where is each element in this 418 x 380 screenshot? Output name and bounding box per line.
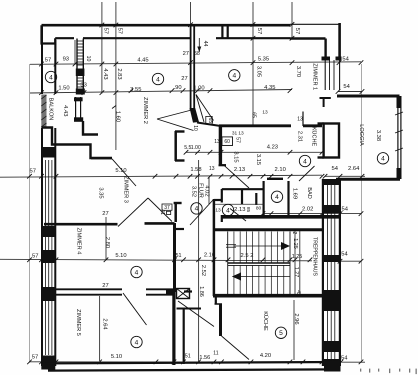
svg-text:4: 4: [195, 206, 199, 213]
svg-text:1.86: 1.86: [198, 286, 204, 297]
zimmer3 door swing: [118, 198, 172, 227]
kueche top wall: [219, 124, 322, 127]
svg-text:3.35: 3.35: [97, 187, 103, 198]
balkon bottom wall zigzag: [42, 128, 113, 159]
balkon parapet hatched: [41, 95, 46, 129]
svg-text:60: 60: [224, 139, 230, 145]
svg-text:1.27: 1.27: [293, 267, 299, 278]
svg-text:2.83: 2.83: [116, 68, 122, 79]
west wall pier 1: [41, 147, 55, 158]
east wall pier 5: [322, 341, 341, 352]
zimmer4-5 wall south face: [55, 294, 173, 296]
dim tick 1.60: [112, 106, 116, 109]
bad bottom wall: [222, 215, 342, 219]
svg-text:57: 57: [294, 28, 300, 34]
east wall pier 3: [322, 255, 341, 262]
svg-text:57: 57: [234, 137, 240, 143]
svg-text:2.02: 2.02: [302, 207, 313, 213]
flur west wall mid: [174, 203, 177, 222]
ext line x115: [115, 2, 117, 150]
svg-text:4.45: 4.45: [137, 58, 148, 64]
svg-text:2.52: 2.52: [200, 265, 206, 276]
svg-text:13: 13: [214, 139, 220, 145]
sink square: [167, 211, 171, 214]
ext line x292: [291, 2, 293, 39]
entree duct xbox: [177, 289, 190, 299]
stair bottom wall: [213, 294, 322, 298]
dim line y261 main: [0, 259, 312, 261]
svg-text:80: 80: [256, 206, 262, 212]
flur door jamb b: [184, 290, 192, 292]
loggia top wall: [337, 95, 400, 98]
zimmer4-5 wall north face: [55, 288, 173, 290]
duct flanges: [318, 124, 324, 158]
svg-text:1.25: 1.25: [292, 254, 303, 260]
west wall pier 5: [41, 356, 55, 370]
flur door swing: [190, 200, 213, 225]
bottom wall north face: [42, 362, 341, 363]
svg-text:1.50: 1.50: [58, 86, 69, 92]
loggia east window: [395, 96, 403, 179]
west wall outer face lower: [41, 128, 43, 366]
zimmer2 corner L wall: [83, 121, 98, 135]
circle flur: [191, 203, 202, 214]
ext line stair x299: [299, 231, 301, 295]
north wall vent bars: [221, 26, 229, 38]
svg-text:BALKON: BALKON: [47, 98, 53, 121]
east wall windows: [328, 185, 335, 359]
svg-text:65: 65: [251, 112, 257, 118]
svg-text:3.15: 3.15: [255, 154, 261, 165]
svg-text:2.13: 2.13: [234, 207, 245, 213]
svg-text:57: 57: [116, 28, 122, 34]
svg-text:4.20: 4.20: [260, 353, 271, 359]
svg-text:5: 5: [279, 330, 283, 337]
kueche door swing: [219, 165, 249, 188]
kueche west wall foot: [219, 164, 227, 166]
svg-text:LOGGIA: LOGGIA: [358, 124, 364, 146]
east wall inner face: [322, 179, 324, 366]
svg-text:4: 4: [135, 339, 139, 346]
wc dim line: [214, 203, 264, 205]
svg-text:42: 42: [295, 290, 301, 296]
east wall outer face: [339, 179, 341, 366]
svg-text:13: 13: [297, 117, 303, 123]
closet partition wall hatched: [76, 39, 85, 95]
arrow mark 44: [197, 38, 201, 52]
svg-text:54: 54: [341, 207, 348, 213]
svg-text:FLUR: FLUR: [197, 183, 203, 198]
shaft box 60 outline: [222, 137, 233, 146]
kueche east wall top: [320, 98, 331, 107]
wc east wall: [241, 189, 243, 204]
svg-text:51: 51: [176, 253, 182, 259]
svg-text:TREPPENHAUS: TREPPENHAUS: [312, 237, 318, 276]
dim line top y64: [30, 62, 361, 65]
ext line x253: [252, 2, 254, 126]
svg-text:4: 4: [381, 156, 385, 163]
svg-text:ZIMMER 2: ZIMMER 2: [142, 97, 148, 124]
wc inner stub: [255, 193, 257, 205]
svg-text:27: 27: [102, 211, 108, 217]
bad door swing: [299, 166, 315, 181]
svg-text:3.05: 3.05: [256, 66, 262, 77]
svg-text:ZIMMER 1: ZIMMER 1: [312, 63, 318, 90]
svg-text:54: 54: [341, 356, 348, 362]
zimmer2-zimmer3 wall: [91, 157, 112, 159]
ext line x75 top: [74, 40, 76, 64]
wall stub y203: [174, 202, 182, 204]
svg-text:5.10: 5.10: [115, 253, 126, 259]
west wall windows: [46, 160, 52, 355]
stair top wall: [213, 228, 322, 231]
flur west wall upper: [174, 131, 177, 161]
ext line x106 z4: [105, 217, 107, 260]
kueche2 door swing: [222, 336, 250, 360]
shower room east wall: [287, 181, 289, 216]
svg-text:44: 44: [202, 41, 208, 47]
west wall inner face lower: [54, 128, 56, 366]
svg-text:33: 33: [80, 83, 86, 89]
zimmer1 north inner wall: [290, 37, 326, 39]
svg-text:ZIMMER 4: ZIMMER 4: [76, 228, 82, 255]
dim line y213 bad: [263, 213, 361, 215]
bad west wall: [263, 181, 265, 216]
kueche west wall: [219, 126, 222, 165]
svg-text:10: 10: [192, 125, 198, 131]
window zimmer1 east: [325, 60, 339, 90]
ext line flur x209: [208, 177, 210, 204]
dim chain left x29: [29, 64, 31, 363]
svg-text:2.5 2: 2.5 2: [241, 253, 254, 259]
circle loggia: [377, 153, 388, 164]
svg-text:54: 54: [342, 56, 349, 62]
dim line y176 right: [325, 175, 365, 177]
svg-text:4.02: 4.02: [203, 185, 209, 196]
loggia west duct shaft: [324, 124, 339, 158]
ext line x190 top: [190, 2, 192, 24]
circle wc: [222, 204, 233, 215]
box around 37: [162, 204, 172, 210]
svg-text:4: 4: [275, 194, 279, 201]
svg-text:93: 93: [63, 56, 69, 62]
loggia bottom wall: [336, 178, 400, 181]
svg-text:13: 13: [209, 166, 215, 172]
west wall pier 4: [41, 287, 55, 301]
svg-text:42: 42: [291, 229, 297, 235]
circle zimmer1: [229, 70, 240, 81]
balkon door window: [74, 97, 83, 122]
ext line kueche2 x294: [293, 300, 295, 360]
north-east corner vertical: [338, 23, 341, 60]
svg-text:4.43: 4.43: [62, 105, 68, 116]
svg-text:2.96: 2.96: [293, 313, 299, 324]
box around 65: [206, 116, 212, 124]
circle kueche1: [299, 155, 310, 166]
svg-text:4.35: 4.35: [264, 85, 275, 91]
svg-text:4: 4: [135, 269, 139, 276]
flur east wall top stub: [214, 199, 222, 201]
svg-text:1.56: 1.56: [199, 355, 210, 361]
svg-text:2.13: 2.13: [234, 167, 245, 173]
svg-text:4: 4: [226, 207, 230, 214]
east wall pier 2: [322, 205, 341, 213]
circle zimmer4: [131, 266, 142, 277]
svg-text:3.15: 3.15: [233, 151, 239, 162]
svg-text:54: 54: [341, 252, 348, 258]
wc door swing: [230, 209, 246, 222]
zimmer5 east wall: [172, 292, 175, 365]
north wall thin extension: [290, 23, 339, 25]
svg-text:10: 10: [85, 56, 91, 62]
svg-text:3.38: 3.38: [375, 130, 381, 141]
svg-text:KÜCHE: KÜCHE: [262, 311, 269, 331]
svg-text:3.70: 3.70: [295, 66, 301, 77]
zimmer1 door swings: [196, 95, 214, 123]
svg-text:ZIMMER 3: ZIMMER 3: [123, 176, 129, 203]
dim line y176 main: [0, 175, 322, 177]
svg-text:54: 54: [343, 84, 350, 90]
svg-text:11: 11: [213, 351, 218, 357]
dim line bottom y363: [30, 361, 365, 363]
ext line stair x295: [294, 231, 296, 295]
east wall pier 6: [322, 359, 341, 366]
svg-text:57: 57: [45, 57, 51, 63]
svg-text:13: 13: [215, 208, 221, 214]
zimmer1 east jamb: [324, 39, 326, 58]
pier zimmer1 window top a: [322, 57, 331, 61]
flur west wall caps: [175, 132, 185, 161]
circle balkon: [45, 71, 56, 82]
zimmer3 bottom wall: [44, 222, 175, 225]
dim line y91 left: [30, 90, 292, 94]
dim line y91 right: [338, 91, 362, 93]
circle zimmer2: [152, 73, 163, 84]
svg-text:1.60: 1.60: [115, 111, 121, 122]
dim line y152 kitchen: [186, 151, 322, 153]
north wall inner face: [55, 37, 290, 39]
circle bad: [271, 191, 282, 202]
svg-text:3.52: 3.52: [191, 186, 197, 197]
svg-text:1.58: 1.58: [190, 167, 201, 173]
zimmer2 door swings: [157, 110, 194, 131]
svg-text:4.43: 4.43: [102, 68, 108, 79]
svg-text:57: 57: [32, 355, 38, 361]
pier zimmer1 window top b: [336, 57, 342, 61]
zimmer5 door swing: [123, 293, 147, 325]
entree east stub: [215, 296, 223, 305]
flur north wall link: [197, 123, 219, 126]
circle kueche2: [275, 327, 286, 338]
svg-text:13: 13: [262, 110, 268, 116]
svg-text:54: 54: [331, 166, 338, 172]
svg-text:4: 4: [303, 158, 307, 165]
svg-text:1.00: 1.00: [193, 86, 204, 92]
bad top wall: [267, 178, 283, 180]
zimmer4 east wall: [173, 223, 176, 292]
svg-text:5.10: 5.10: [111, 354, 122, 360]
svg-text:2.31: 2.31: [297, 131, 303, 142]
svg-text:2.64: 2.64: [348, 166, 360, 172]
svg-text:31: 31: [232, 131, 238, 137]
west wall inner face upper: [54, 44, 56, 95]
svg-text:2.10: 2.10: [204, 253, 215, 259]
svg-text:5.10: 5.10: [115, 168, 126, 174]
kueche door jamb: [302, 112, 304, 127]
zimmer4-5 pier: [166, 289, 176, 295]
dim line y261 right: [338, 260, 361, 262]
svg-text:57: 57: [256, 28, 262, 34]
ext line x56 top: [55, 40, 57, 64]
flur door jamb a: [176, 228, 184, 230]
svg-text:2.64: 2.64: [101, 318, 107, 330]
dim chain right x361: [361, 64, 363, 363]
svg-text:2.10: 2.10: [275, 167, 286, 173]
west wall top step: [42, 25, 56, 43]
zimmer2-zimmer1 wall upper: [191, 26, 195, 110]
svg-text:2.80: 2.80: [104, 237, 110, 248]
wc north wall: [222, 188, 264, 190]
kueche2 west wall: [219, 304, 222, 336]
entree west wall: [177, 308, 202, 365]
east wall pier 4: [322, 290, 341, 311]
stairs treppenhaus: [226, 232, 290, 295]
svg-text:57: 57: [29, 168, 35, 174]
entree door swing: [178, 301, 214, 327]
svg-text:57: 57: [32, 254, 38, 260]
wc west wall: [221, 189, 223, 222]
svg-text:.90: .90: [174, 85, 182, 91]
flur east wall: [213, 199, 216, 296]
bottom wall south face: [48, 369, 336, 370]
svg-text:1.69: 1.69: [292, 188, 298, 199]
svg-text:ZIMMER 5: ZIMMER 5: [75, 309, 81, 336]
svg-text:57: 57: [102, 28, 108, 34]
east wall pier 1: [322, 179, 341, 185]
svg-text:27: 27: [102, 283, 108, 289]
svg-text:KÜCHE: KÜCHE: [311, 127, 318, 147]
west wall outer face upper: [41, 26, 43, 94]
dimension ticks: [27, 22, 364, 364]
zimmer3 door swing west: [112, 159, 136, 186]
svg-text:1.25: 1.25: [292, 238, 298, 249]
ext line flur x198: [198, 160, 200, 363]
circle zimmer5: [131, 336, 142, 347]
svg-text:BAD: BAD: [306, 187, 312, 199]
svg-text:27: 27: [181, 76, 187, 82]
west wall pier 2: [41, 226, 55, 237]
zimmer2-zimmer1 wall kink: [190, 108, 199, 123]
svg-text:27: 27: [183, 51, 189, 57]
svg-text:1.00: 1.00: [191, 145, 201, 151]
bottom wall se corner: [324, 363, 341, 372]
svg-text:4.23: 4.23: [267, 145, 278, 151]
scan noise marks: [360, 369, 417, 375]
west wall pier 3: [41, 250, 55, 263]
svg-text:5.35: 5.35: [258, 56, 269, 62]
svg-text:13: 13: [238, 131, 244, 137]
svg-text:4: 4: [156, 76, 160, 83]
ext line x101: [101, 2, 103, 94]
svg-text:3.55: 3.55: [130, 87, 141, 93]
svg-text:51: 51: [185, 354, 191, 360]
north wall outer face: [42, 24, 291, 27]
svg-text:4: 4: [232, 73, 236, 80]
svg-text:4: 4: [49, 74, 53, 81]
svg-text:85: 85: [245, 207, 251, 213]
ext line x99 z5: [99, 296, 101, 361]
